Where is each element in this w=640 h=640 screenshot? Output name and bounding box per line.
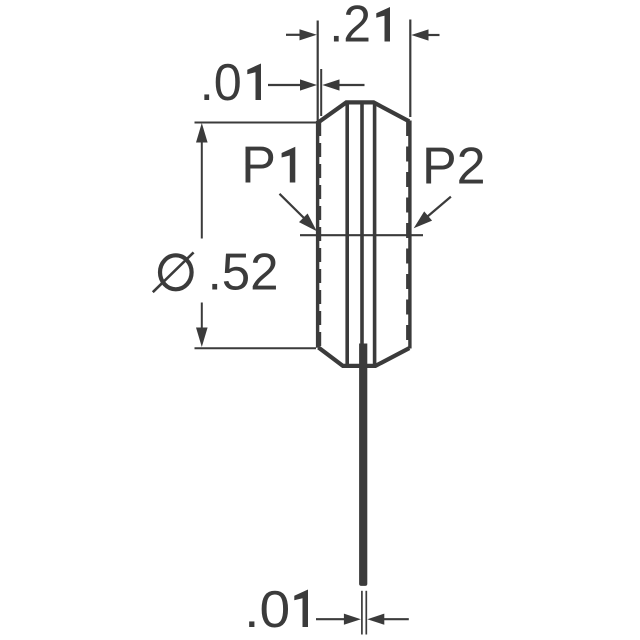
lead wire: [359, 344, 367, 586]
dimension dia .52 top extension line: [195, 122, 317, 124]
dimension .01 top left-pointing arrow: [322, 79, 364, 90]
svg-text:.52: .52: [208, 244, 279, 302]
svg-text:.0: .0: [200, 54, 242, 112]
body bottom cap outline: [318, 347, 409, 366]
body left edge knurl dashes: [318, 122, 322, 347]
dimension .01 bottom right extension line: [365, 591, 367, 635]
dimension .01 top leader line with right-pointing arrow: [268, 79, 317, 90]
P2 leader arrow: [414, 197, 451, 229]
dimension dia .52 bottom extension line: [195, 347, 317, 349]
rotor slot right line: [373, 103, 377, 366]
dimension .21 right extension line: [409, 20, 411, 118]
P1 leader arrow: [280, 194, 317, 231]
dimension .21 left arrow: [286, 29, 317, 40]
dimension dia .52 vertical line lower segment with down arrow: [196, 303, 208, 348]
dimension .01 bottom left extension line: [361, 591, 363, 635]
svg-text:P: P: [241, 137, 276, 195]
rotor center line: [360, 103, 364, 345]
dimension .01 bottom leader line with right-pointing arrow: [316, 614, 361, 625]
dimension .01 top right extension line: [320, 69, 322, 116]
dimension .21 left extension line: [317, 21, 319, 122]
svg-text:.2: .2: [329, 0, 371, 54]
svg-text:.0: .0: [244, 581, 290, 639]
dimension .21 right arrow: [411, 29, 439, 40]
svg-text:P2: P2: [422, 138, 486, 196]
dimension .01 bottom left-pointing arrow: [367, 614, 409, 625]
dimension dia .52 vertical line upper segment with up arrow: [196, 123, 208, 239]
body right edge knurl dashes: [406, 121, 410, 348]
diameter symbol: [153, 252, 194, 292]
body right edge outer line: [408, 121, 411, 349]
P1-P2 reference line across body: [300, 234, 423, 236]
rotor slot left line: [345, 103, 349, 366]
body left edge outer line: [316, 121, 319, 348]
body top cap outline: [318, 102, 409, 122]
